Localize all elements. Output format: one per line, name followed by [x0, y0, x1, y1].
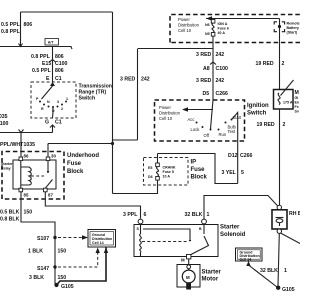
battery bottom terminal	[277, 229, 281, 233]
ground G105 left	[54, 283, 58, 287]
svg-text:Block: Block	[67, 169, 84, 175]
svg-text:E5: E5	[148, 166, 152, 170]
relay terminal 86	[19, 157, 23, 161]
svg-text:Fuse: Fuse	[191, 167, 206, 173]
wire vertical 112 from top run down to crank fuse feed	[112, 12, 114, 194]
wire jog to crank fuse	[158, 154, 238, 184]
svg-text:Motor: Motor	[202, 277, 219, 283]
svg-text:Starter: Starter	[202, 270, 222, 276]
svg-text:6: 6	[144, 212, 147, 218]
svg-text:Cell 10: Cell 10	[178, 28, 192, 33]
svg-text:D5: D5	[203, 91, 210, 97]
svg-text:2: 2	[282, 61, 285, 67]
wire node horizontal 143	[48, 143, 113, 145]
svg-text:40 A: 40 A	[218, 31, 226, 35]
svg-text:G: G	[45, 120, 49, 126]
battery top terminal	[277, 205, 281, 209]
ignition switch dashed box	[155, 100, 245, 141]
junction tick V1 to bus	[19, 44, 23, 47]
relay terminal 30	[46, 157, 50, 161]
wire A/T bus horizontal	[0, 47, 72, 50]
svg-text:30: 30	[51, 154, 56, 159]
arrow under ground distribution right	[246, 261, 250, 266]
wire 3 RED 242 vertical	[137, 49, 139, 140]
wire relay 30 up to node	[47, 144, 49, 158]
wire start output 3 YEL down	[237, 141, 239, 184]
wire relay 85 down	[21, 192, 55, 284]
svg-text:150: 150	[58, 275, 67, 281]
svg-text:C100: C100	[0, 121, 9, 127]
fuse IGN A Fuse 6 40 A	[211, 20, 215, 24]
arrow feed line top	[206, 18, 280, 20]
fuse CRANK Fuse 5 10 A	[156, 163, 160, 167]
relay coil	[20, 161, 22, 189]
transmission range (TR) switch dashed box	[31, 82, 76, 118]
svg-text:3 PPL: 3 PPL	[123, 212, 138, 218]
wire G down to horizontal	[52, 125, 54, 133]
motor ground stub	[186, 283, 191, 290]
ignition start output wire	[232, 113, 238, 142]
wire battery down to G105	[278, 234, 279, 287]
svg-text:1035: 1035	[24, 142, 36, 148]
svg-text:3 RED: 3 RED	[196, 52, 212, 58]
svg-text:IGN A: IGN A	[218, 22, 228, 26]
svg-text:Relay: Relay	[1, 167, 11, 171]
TR switch contact arc dots	[39, 101, 41, 103]
mega fuse 175 A box	[274, 90, 294, 110]
relay contact arm	[45, 180, 52, 189]
wire 213 down into ignition switch	[212, 49, 214, 101]
thick ground lead from cell box to G105	[57, 248, 106, 285]
svg-text:Power: Power	[159, 105, 171, 110]
svg-text:Off: Off	[204, 133, 210, 138]
wire fuse down to T corner	[212, 36, 214, 49]
svg-text:Fuse 5: Fuse 5	[163, 170, 174, 174]
svg-text:0.8 PPL: 0.8 PPL	[1, 29, 21, 35]
dashed from S147 to ground distribution	[58, 251, 98, 267]
ip fuse block dashed box	[144, 158, 189, 186]
solenoid B terminal	[202, 219, 207, 224]
svg-text:2: 2	[283, 122, 286, 128]
svg-text:RH B: RH B	[289, 211, 300, 217]
tick on G wire	[50, 125, 55, 128]
svg-text:C1: C1	[55, 120, 62, 126]
svg-text:A8: A8	[203, 66, 210, 72]
svg-text:150: 150	[24, 210, 33, 216]
svg-text:Switch: Switch	[247, 111, 267, 117]
svg-text:S107: S107	[37, 236, 49, 242]
node junction at 112,143	[111, 142, 114, 145]
svg-text:N6: N6	[205, 23, 210, 27]
svg-text:Ignition: Ignition	[247, 103, 269, 109]
svg-text:Test: Test	[228, 129, 237, 134]
wire fuse down to battery	[279, 109, 281, 206]
wire crank fuse down and left	[113, 180, 158, 194]
underhood fuse block dashed box	[2, 152, 64, 200]
wire jog node to 3 RED vertical	[113, 140, 138, 144]
wire battery to off canvas right	[281, 233, 301, 244]
svg-text:Switch: Switch	[79, 96, 96, 102]
wire horizontal 132 to left edge	[0, 132, 53, 134]
solenoid S terminal	[138, 219, 143, 224]
svg-text:Fuse 6: Fuse 6	[218, 27, 229, 31]
wire 32 BLK from solenoid B	[204, 196, 278, 220]
svg-text:Power: Power	[178, 17, 190, 22]
svg-text:0.8 PPL: 0.8 PPL	[31, 54, 51, 60]
svg-text:19 RED: 19 RED	[257, 122, 275, 128]
svg-text:Block: Block	[191, 175, 208, 181]
solenoid plunger dashed	[142, 241, 187, 243]
svg-text:87: 87	[48, 193, 53, 198]
svg-text:0.5 PPL: 0.5 PPL	[1, 22, 21, 28]
svg-text:32 BLK: 32 BLK	[185, 212, 203, 218]
remote battery start stud	[279, 19, 281, 91]
ground G105 right	[276, 286, 280, 290]
svg-text:0.5 PPL: 0.5 PPL	[32, 68, 52, 74]
svg-text:B: B	[199, 227, 202, 231]
solenoid B contact arm	[203, 224, 205, 234]
svg-text:150: 150	[58, 249, 67, 255]
svg-text:C100: C100	[216, 66, 229, 72]
svg-text:C1: C1	[55, 76, 62, 82]
svg-text:3 RED: 3 RED	[120, 77, 136, 83]
svg-text:1: 1	[207, 212, 210, 218]
svg-text:242: 242	[216, 52, 225, 58]
ground distribution cell 14 box left	[88, 230, 116, 248]
arrow to power distribution label	[187, 109, 213, 111]
svg-text:Solenoid: Solenoid	[220, 232, 246, 238]
svg-text:3 BLK: 3 BLK	[29, 275, 44, 281]
svg-text:A/T: A/T	[48, 41, 55, 45]
svg-text:175 A: 175 A	[283, 101, 293, 105]
relay plunger dashed	[31, 175, 44, 177]
wire 0.8/0.5 PPL 806 down to TR switch	[52, 47, 54, 83]
RH battery box	[272, 210, 287, 229]
svg-text:806: 806	[55, 68, 64, 74]
splice S107	[53, 236, 56, 239]
wire top horizontal PPL run	[21, 11, 113, 13]
svg-text:Cell 14: Cell 14	[92, 241, 104, 245]
starter solenoid box	[134, 225, 218, 257]
svg-text:Starter: Starter	[220, 225, 240, 231]
svg-text:1: 1	[66, 97, 68, 101]
svg-text:R: R	[41, 107, 44, 111]
lead to G105 right	[249, 265, 278, 287]
svg-text:Run: Run	[219, 132, 227, 137]
starter motor box	[177, 265, 200, 288]
svg-text:Sv: Sv	[295, 110, 299, 114]
svg-text:D12: D12	[228, 153, 238, 159]
svg-text:C266: C266	[240, 153, 253, 159]
A/T box	[45, 39, 59, 46]
wire into crank fuse top	[157, 154, 159, 164]
svg-text:1035: 1035	[0, 114, 8, 120]
starter relay box	[13, 160, 56, 189]
ground distribution cell 14 box right	[236, 248, 263, 261]
relay terminal 85	[19, 188, 23, 192]
svg-text:PPL/WHT: PPL/WHT	[0, 142, 24, 148]
svg-text:3 YEL: 3 YEL	[222, 170, 237, 176]
junction tick at 21,132	[19, 130, 24, 133]
TR switch output to G	[52, 107, 55, 118]
svg-text:5: 5	[241, 170, 244, 176]
svg-text:Cell 14: Cell 14	[240, 258, 252, 262]
callout line to fuse label	[281, 80, 294, 96]
svg-text:G105: G105	[282, 287, 295, 293]
svg-text:85: 85	[24, 193, 29, 198]
svg-text:3 RED: 3 RED	[196, 78, 212, 84]
svg-text:Lock: Lock	[191, 127, 201, 132]
svg-text:Distribution: Distribution	[159, 111, 181, 116]
svg-text:S147: S147	[37, 266, 49, 272]
svg-text:242: 242	[141, 77, 150, 83]
svg-text:D6: D6	[148, 175, 153, 179]
solenoid contact feed from S	[143, 229, 190, 239]
svg-text:C100: C100	[55, 61, 68, 67]
svg-text:Cell 10: Cell 10	[159, 116, 173, 121]
svg-text:0.8 BLK: 0.8 BLK	[0, 217, 20, 223]
svg-text:N5: N5	[205, 32, 210, 36]
solenoid M terminal	[187, 255, 191, 259]
wire PPL/WHT 1035 down to relay 86	[20, 133, 22, 159]
wire M to motor	[188, 259, 190, 265]
svg-text:Remote: Remote	[287, 22, 300, 26]
svg-text:242: 242	[216, 78, 225, 84]
connector A8 C100	[210, 62, 216, 65]
svg-text:86: 86	[24, 154, 29, 159]
relay contact fixed	[47, 161, 49, 171]
svg-text:1 BLK: 1 BLK	[28, 249, 43, 255]
svg-text:806: 806	[24, 22, 33, 28]
svg-text:Fe: Fe	[295, 105, 299, 109]
svg-text:1: 1	[284, 268, 287, 274]
wire relay 87 down and right to solenoid S	[45, 192, 140, 219]
motor armature circle	[182, 270, 195, 283]
svg-text:Battery: Battery	[287, 26, 299, 30]
svg-text:806: 806	[55, 54, 64, 60]
svg-text:19 RED: 19 RED	[256, 61, 274, 67]
svg-text:Fuse: Fuse	[67, 161, 82, 167]
svg-text:(Start): (Start)	[287, 31, 298, 35]
TR switch lever	[42, 86, 53, 99]
svg-text:Underhood: Underhood	[67, 153, 99, 159]
svg-text:Acc: Acc	[188, 117, 195, 122]
svg-text:2: 2	[61, 107, 63, 111]
svg-text:M: M	[181, 258, 185, 263]
svg-text:E: E	[46, 76, 50, 82]
svg-text:3: 3	[57, 100, 59, 104]
svg-text:N: N	[47, 100, 50, 104]
svg-text:Starter: Starter	[1, 162, 13, 166]
svg-text:C266: C266	[216, 91, 229, 97]
solenoid coil	[140, 224, 142, 256]
svg-text:CRANK: CRANK	[163, 166, 176, 170]
relay terminal 87	[44, 188, 48, 192]
TR switch contact arrow E	[50, 82, 55, 86]
svg-text:G105: G105	[61, 284, 74, 290]
ignition feed lever	[211, 100, 214, 129]
svg-text:32 BLK: 32 BLK	[260, 268, 278, 274]
splice S147	[53, 265, 56, 268]
wire 0.5 PPL 806 vertical left	[20, 12, 22, 46]
svg-text:Distribution: Distribution	[178, 23, 200, 28]
svg-text:10 A: 10 A	[163, 175, 171, 179]
svg-text:En: En	[295, 101, 300, 105]
svg-text:IP: IP	[191, 160, 197, 166]
power distribution dashed box top	[170, 15, 300, 43]
svg-text:Gl: Gl	[295, 96, 299, 100]
battery cell symbol	[276, 217, 284, 219]
svg-text:M: M	[186, 275, 190, 280]
svg-text:0.5 BLK: 0.5 BLK	[0, 210, 20, 216]
wire horizontal 48 to 3 RED vertical	[138, 48, 214, 50]
dashed arrow S107 to ground distribution	[58, 237, 82, 239]
motor top terminal	[187, 265, 191, 269]
